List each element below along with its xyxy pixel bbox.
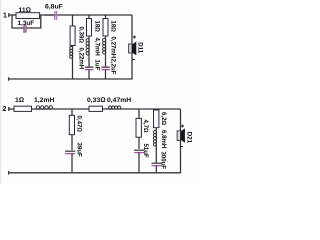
resistor 4,7 ohm (136, 118, 141, 137)
resistor 0,33 ohm (87, 97, 105, 111)
wire speaker D11 drop (131, 15, 133, 79)
svg-text:39uF: 39uF (76, 143, 83, 158)
svg-text:0,22mH: 0,22mH (77, 48, 84, 70)
branch A: 0,39ohm + 0,22mH shunt (70, 15, 85, 79)
resistor R 1 ohm (14, 97, 32, 111)
wire stub (71, 109, 73, 115)
svg-text:0,27mH: 0,27mH (110, 37, 117, 59)
resistor 0,39 ohm (70, 26, 75, 46)
resistor 6,2 ohm (154, 110, 159, 128)
speaker D11 (129, 36, 144, 60)
bottom rail 1 left tick (8, 77, 10, 81)
plus mark (181, 125, 184, 128)
canvas left edge (0, 0, 1, 184)
branch E: 4,7ohm + 51uF shunt (134, 109, 149, 173)
inductor 0,22mH (72, 46, 74, 80)
wire stub (105, 15, 107, 19)
svg-text:1,3uF: 1,3uF (18, 20, 35, 27)
wire speaker D21 drop (180, 109, 182, 173)
svg-text:18Ω: 18Ω (94, 21, 101, 33)
svg-text:1,2mH: 1,2mH (34, 97, 54, 104)
wire bottom rail 1 (8, 78, 133, 80)
resistor 18 ohm (87, 19, 92, 37)
svg-text:4,7mH: 4,7mH (94, 38, 101, 56)
svg-text:D21: D21 (185, 132, 192, 144)
wire stub (72, 15, 74, 26)
resistor 0,47 ohm (69, 115, 74, 134)
branch C: 18ohm + 0,27mH + 2,2uF shunt (101, 15, 116, 79)
node 2 terminal tick (8, 107, 10, 111)
wire node to parallel cap left leg (12, 15, 24, 28)
svg-text:1Ω: 1Ω (15, 97, 24, 104)
capacitor 1,3uF (parallel with R11) (18, 20, 35, 33)
svg-text:2: 2 (3, 106, 7, 113)
minus mark (132, 59, 135, 61)
svg-text:6,8mH: 6,8mH (160, 130, 167, 148)
wire stub (88, 15, 90, 19)
minus mark (180, 146, 183, 148)
branch F: 6,2ohm + 6,8mH + 300uF shunt (152, 109, 168, 173)
speaker D21 (177, 125, 192, 147)
bottom rail 2 left tick (8, 171, 10, 175)
resistor 18 ohm (103, 19, 108, 37)
svg-text:0,47mH: 0,47mH (107, 97, 131, 104)
inductor 1,2mH (34, 97, 54, 109)
svg-text:1: 1 (3, 12, 7, 19)
svg-text:1uF: 1uF (94, 60, 101, 71)
svg-text:0,39Ω: 0,39Ω (77, 27, 84, 44)
wire parallel cap right leg (26, 15, 41, 28)
branch B: 18ohm + 4,7mH + 1uF shunt (85, 15, 101, 79)
capacitor 300uF (152, 162, 162, 164)
wire main top rail 2 (32, 108, 181, 110)
wire input to R11 (8, 14, 16, 16)
inductor 0,47mH (107, 97, 131, 109)
branch D: 0,47ohm + 39uF shunt (65, 109, 82, 173)
svg-text:0,33Ω: 0,33Ω (87, 97, 105, 104)
wire input to R 1ohm (8, 108, 14, 110)
inductor 6,8mH (155, 128, 157, 163)
svg-text:D11: D11 (137, 42, 144, 53)
svg-text:6,2Ω: 6,2Ω (160, 112, 167, 125)
svg-text:18Ω: 18Ω (110, 21, 117, 33)
inductor 0,27mH (105, 36, 107, 67)
wire bottom rail 2 (8, 172, 181, 174)
plus mark (133, 36, 136, 39)
svg-text:300uF: 300uF (160, 152, 167, 170)
capacitor 51uF (134, 149, 144, 151)
capacitor 6,8uF (series) (45, 4, 63, 20)
svg-text:6,8uF: 6,8uF (45, 4, 63, 11)
svg-text:2,2uF: 2,2uF (110, 59, 117, 75)
svg-text:4,7Ω: 4,7Ω (142, 120, 149, 133)
inductor 4,7mH (88, 36, 90, 67)
svg-text:11Ω: 11Ω (19, 7, 31, 14)
node 1 terminal tick (8, 13, 10, 17)
wire stub (155, 109, 157, 110)
wire main top rail 1 (40, 14, 132, 16)
resistor R 11 ohm (16, 7, 40, 18)
svg-text:51uF: 51uF (142, 144, 149, 159)
capacitor 39uF (65, 150, 75, 152)
svg-text:0,47Ω: 0,47Ω (76, 116, 83, 133)
wire stub (138, 109, 140, 118)
capacitor 1uF (85, 66, 94, 68)
capacitor 2,2uF (101, 66, 110, 68)
